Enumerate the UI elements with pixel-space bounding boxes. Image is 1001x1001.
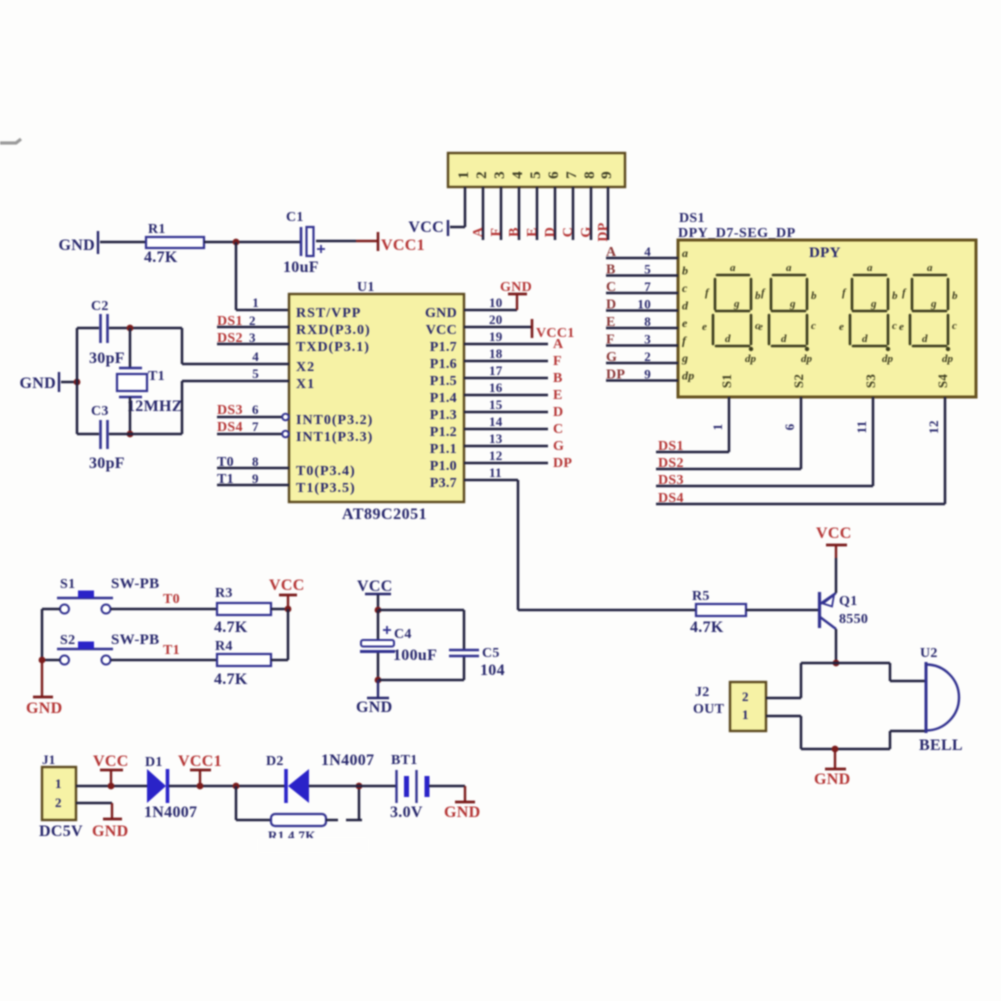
svg-text:P1.5: P1.5: [430, 374, 457, 389]
wire: [800, 716, 803, 749]
ground GND (bell): [834, 749, 836, 768]
svg-text:VCC: VCC: [357, 578, 393, 595]
svg-text:T1: T1: [163, 643, 180, 658]
svg-text:P1.1: P1.1: [430, 442, 457, 457]
svg-text:T0: T0: [163, 592, 180, 607]
svg-text:VCC: VCC: [426, 323, 457, 338]
svg-text:30pF: 30pF: [89, 350, 125, 367]
svg-text:S1: S1: [719, 374, 734, 388]
svg-text:T0: T0: [217, 455, 234, 470]
connector header (pins 1-9): [448, 153, 625, 187]
wire S1 to DS1: [728, 397, 731, 452]
svg-text:P3.7: P3.7: [430, 476, 457, 491]
svg-text:D: D: [606, 298, 616, 313]
node: [356, 783, 363, 790]
svg-text:DP: DP: [606, 368, 625, 383]
crystal T1 12MHZ: [119, 367, 142, 370]
svg-text:TXD(P3.1): TXD(P3.1): [296, 340, 370, 355]
svg-text:G: G: [606, 350, 617, 365]
svg-text:1: 1: [710, 424, 725, 431]
svg-text:7: 7: [644, 279, 651, 294]
svg-text:VCC: VCC: [269, 577, 305, 594]
wire: [42, 608, 60, 611]
svg-text:S1: S1: [60, 577, 75, 592]
svg-text:1N4007: 1N4007: [321, 752, 374, 769]
svg-text:GND: GND: [59, 237, 95, 254]
resistor R3 4.7K: [217, 603, 271, 615]
svg-text:U1: U1: [357, 280, 375, 295]
wire pin 18 / net F: [464, 360, 548, 363]
node: [832, 746, 839, 753]
svg-text:R3: R3: [215, 586, 233, 601]
svg-text:3: 3: [249, 330, 256, 345]
svg-text:8: 8: [582, 171, 598, 179]
node: [375, 677, 382, 684]
resistor R1 4.7K (charge limit): [271, 814, 326, 826]
svg-text:4: 4: [252, 349, 259, 364]
svg-text:A: A: [471, 226, 486, 237]
wire S3 to DS3: [872, 397, 875, 486]
svg-text:d: d: [682, 299, 689, 313]
svg-text:c: c: [952, 320, 957, 332]
svg-text:a: a: [786, 262, 792, 274]
svg-text:d: d: [862, 333, 868, 345]
svg-text:E: E: [553, 388, 563, 403]
svg-text:4.7K: 4.7K: [144, 249, 178, 266]
svg-text:G: G: [553, 439, 564, 454]
wire pin 2 / net DS1: [217, 326, 289, 329]
svg-text:GND: GND: [26, 700, 62, 717]
display DS1 body: [678, 240, 976, 397]
svg-text:VCC: VCC: [816, 525, 852, 542]
power VCC (Q1): [826, 544, 847, 547]
svg-text:12MHZ: 12MHZ: [127, 398, 183, 415]
svg-text:Q1: Q1: [839, 594, 858, 609]
svg-text:2: 2: [55, 795, 62, 810]
svg-text:a: a: [730, 262, 736, 274]
wire (dashed, branch return): [326, 819, 338, 822]
svg-text:P1.0: P1.0: [430, 459, 457, 474]
power VCC (input): [110, 771, 112, 786]
svg-text:E: E: [606, 315, 616, 330]
svg-text:DP: DP: [553, 456, 572, 471]
diode D2 1N4007: [284, 769, 288, 803]
capacitor C1 10uF: [300, 227, 303, 256]
node: [833, 660, 840, 667]
svg-text:e: e: [758, 321, 763, 333]
svg-text:4.7K: 4.7K: [214, 619, 248, 636]
svg-text:C: C: [553, 422, 563, 437]
svg-text:B: B: [507, 227, 522, 237]
svg-text:d: d: [922, 333, 928, 345]
svg-text:dp: dp: [942, 353, 954, 365]
svg-text:C: C: [606, 280, 616, 295]
svg-text:13: 13: [489, 431, 503, 446]
wire switches common: [41, 609, 44, 660]
svg-text:1: 1: [252, 295, 259, 310]
svg-text:c: c: [892, 320, 897, 332]
wire: [204, 241, 300, 244]
wire: [77, 433, 99, 436]
power VCC1 net label: [377, 232, 380, 251]
wire to U1 pin 1: [235, 242, 238, 310]
svg-text:U2: U2: [920, 646, 938, 661]
connector J2 OUT: [730, 682, 766, 731]
svg-text:S3: S3: [863, 374, 878, 389]
wire: [746, 609, 818, 612]
wire: [800, 663, 803, 698]
svg-text:P1.7: P1.7: [430, 340, 457, 355]
svg-text:DS3: DS3: [217, 403, 243, 418]
svg-text:100uF: 100uF: [393, 647, 437, 664]
wire segment pin F: [606, 344, 678, 347]
svg-text:3: 3: [644, 332, 651, 347]
ground GND (input): [103, 818, 122, 821]
svg-text:1: 1: [55, 776, 62, 791]
wire: [129, 397, 132, 434]
svg-text:1: 1: [742, 707, 749, 722]
svg-text:F: F: [489, 228, 504, 237]
wire: [271, 608, 288, 611]
wire: [129, 328, 132, 367]
svg-text:11: 11: [854, 421, 869, 434]
svg-text:P1.3: P1.3: [430, 408, 457, 423]
svg-text:g: g: [733, 298, 740, 310]
wire segment pin DP: [606, 379, 678, 382]
svg-text:C: C: [561, 227, 576, 237]
svg-text:S2: S2: [791, 374, 806, 388]
svg-text:30pF: 30pF: [89, 455, 125, 472]
wire collector: [835, 629, 838, 663]
svg-text:GND: GND: [92, 823, 128, 840]
svg-text:2: 2: [742, 689, 749, 704]
svg-text:4.7K: 4.7K: [214, 671, 248, 688]
wire: [77, 327, 99, 330]
svg-text:17: 17: [489, 363, 503, 378]
wire J1 pin 1: [76, 785, 147, 788]
wire pin 11 (P3.7): [464, 479, 518, 482]
wire pin 15 / net D: [464, 411, 548, 414]
svg-text:A: A: [606, 245, 617, 260]
svg-text:g: g: [870, 298, 877, 310]
svg-text:C5: C5: [482, 646, 500, 661]
svg-text:RXD(P3.0): RXD(P3.0): [296, 323, 371, 338]
resistor R4 4.7K: [217, 654, 271, 666]
svg-text:VCC: VCC: [93, 753, 129, 770]
ground GND (switches): [41, 660, 43, 697]
svg-text:9: 9: [252, 471, 259, 486]
wire: [169, 785, 286, 788]
svg-text:10uF: 10uF: [283, 259, 319, 276]
svg-text:A: A: [553, 337, 564, 352]
svg-text:P1.4: P1.4: [430, 391, 457, 406]
wire pin 8: [590, 187, 593, 240]
wire R4 to VCC node: [271, 659, 288, 662]
svg-text:S2: S2: [60, 633, 75, 648]
switch S1 SW-PB: [60, 605, 69, 614]
svg-text:4: 4: [510, 171, 526, 179]
wire pin 13 / net G: [464, 445, 548, 448]
svg-text:2: 2: [474, 171, 490, 179]
svg-text:SW-PB: SW-PB: [111, 632, 159, 648]
wire: [309, 785, 396, 788]
node: [127, 325, 134, 332]
svg-text:T1(P3.5): T1(P3.5): [296, 481, 356, 496]
svg-text:g: g: [930, 298, 937, 310]
wire S2 to DS2: [800, 397, 803, 469]
wire net T1: [111, 659, 218, 662]
svg-text:B: B: [606, 263, 616, 278]
wire segment pin A: [606, 257, 678, 260]
node: [197, 783, 204, 790]
diode D1 1N4007: [147, 769, 166, 803]
svg-text:e: e: [682, 316, 688, 330]
svg-text:D: D: [553, 405, 563, 420]
transistor Q1 8550 (PNP): [818, 592, 821, 628]
wire: [316, 240, 356, 243]
svg-text:g: g: [789, 298, 796, 310]
switch S2 SW-PB: [60, 656, 69, 665]
svg-text:5: 5: [528, 171, 544, 179]
wire: [42, 659, 60, 662]
svg-text:10: 10: [637, 297, 651, 312]
svg-text:8550: 8550: [839, 612, 868, 627]
svg-text:1: 1: [456, 171, 472, 179]
svg-text:SW-PB: SW-PB: [111, 576, 159, 592]
node: [375, 607, 382, 614]
svg-text:12: 12: [489, 448, 503, 463]
7-segment digit 2: [769, 275, 807, 346]
svg-text:dp: dp: [882, 353, 894, 365]
svg-text:DS2: DS2: [217, 331, 243, 346]
wire segment pin E: [606, 327, 678, 330]
svg-text:e: e: [702, 321, 707, 333]
svg-text:X2: X2: [296, 360, 315, 375]
svg-text:6: 6: [782, 423, 797, 430]
wire J2 pin 1: [766, 715, 801, 718]
connector J1 DC5V: [42, 767, 76, 820]
svg-text:T1: T1: [217, 472, 234, 487]
svg-text:D2: D2: [266, 754, 284, 769]
power VCC1 (after D1): [199, 771, 201, 786]
wire bell loop top: [801, 662, 890, 665]
wire pin 16 / net E: [464, 394, 548, 397]
wire pin 19 / net A: [464, 343, 548, 346]
IC U1 AT89C2051 body: [289, 294, 464, 502]
svg-text:104: 104: [480, 662, 505, 679]
wire pin 3: [500, 187, 503, 240]
svg-text:B: B: [553, 371, 563, 386]
wire: [378, 609, 464, 612]
svg-text:T1: T1: [148, 369, 165, 384]
svg-text:16: 16: [489, 380, 503, 395]
wire pin 9: [607, 187, 610, 240]
svg-text:d: d: [725, 333, 731, 345]
svg-text:E: E: [525, 227, 540, 237]
svg-text:e: e: [899, 321, 904, 333]
svg-text:19: 19: [489, 329, 503, 344]
wire J1 pin 2 to GND: [76, 802, 112, 805]
svg-text:7: 7: [252, 419, 259, 434]
wire pin 12 / net DP: [464, 462, 548, 465]
svg-text:DPY: DPY: [809, 245, 841, 261]
svg-text:3: 3: [492, 171, 508, 179]
wire segment pin G: [606, 362, 678, 365]
svg-text:DS3: DS3: [658, 473, 684, 488]
svg-text:10: 10: [489, 295, 503, 310]
svg-text:D: D: [543, 227, 558, 237]
wire: [109, 327, 182, 330]
svg-text:DC5V: DC5V: [39, 823, 83, 840]
wire: [429, 785, 465, 788]
svg-text:GND: GND: [425, 306, 457, 321]
wire pin 10 to GND: [464, 309, 517, 312]
buzzer U2 BELL: [889, 663, 892, 681]
wire emitter to VCC: [835, 558, 838, 593]
capacitor C3 30pF: [99, 420, 102, 449]
svg-text:12: 12: [926, 420, 941, 434]
7-segment digit 4: [910, 275, 948, 346]
svg-text:8: 8: [252, 454, 259, 469]
wire segment pin B: [606, 274, 678, 277]
svg-text:C2: C2: [91, 299, 109, 314]
power VCC (switch pullups): [287, 596, 289, 609]
svg-text:d: d: [781, 333, 787, 345]
svg-text:R1: R1: [148, 222, 166, 237]
wire pin 8 / net T0: [217, 467, 289, 470]
svg-text:F: F: [606, 333, 615, 348]
svg-text:a: a: [682, 246, 688, 260]
wire net T0: [111, 608, 218, 611]
svg-text:D1: D1: [145, 755, 163, 770]
svg-text:GND: GND: [500, 280, 532, 295]
7-segment digit 1: [713, 275, 751, 346]
svg-text:dp: dp: [801, 353, 813, 365]
node: [108, 783, 115, 790]
svg-text:GND: GND: [444, 804, 480, 821]
svg-text:C4: C4: [394, 627, 412, 642]
svg-text:11: 11: [489, 465, 502, 480]
wire pin 5: [536, 187, 539, 240]
svg-text:F: F: [553, 354, 562, 369]
power VCC1 net label (U1 pin 20): [531, 319, 534, 338]
svg-text:c: c: [682, 281, 688, 295]
wire P3.7 to R5: [518, 609, 696, 612]
svg-text:VCC: VCC: [408, 219, 444, 236]
svg-text:6: 6: [546, 171, 562, 179]
node (R1/C1/RST junction): [233, 239, 240, 246]
svg-text:18: 18: [489, 346, 503, 361]
svg-text:g: g: [681, 351, 688, 365]
svg-text:DS4: DS4: [217, 420, 243, 435]
wire pin 7: [572, 187, 575, 240]
node: [285, 606, 292, 613]
svg-text:a: a: [927, 262, 933, 274]
wire pin 9 / net T1: [217, 484, 289, 487]
wire S4 to DS4: [944, 397, 947, 504]
7-segment digit 3: [850, 275, 888, 346]
wire resistor branch: [235, 786, 238, 820]
ground GND (decoupling): [377, 680, 379, 697]
svg-text:5: 5: [644, 262, 651, 277]
capacitor C4 100uF: [377, 610, 380, 640]
svg-text:J2: J2: [695, 685, 710, 700]
svg-text:C1: C1: [286, 210, 304, 225]
svg-text:G: G: [579, 226, 594, 237]
svg-text:4: 4: [644, 244, 651, 259]
wire: [109, 433, 182, 436]
svg-text:a: a: [867, 262, 873, 274]
svg-text:b: b: [811, 290, 817, 302]
wire pin 1 to VCC: [464, 187, 467, 227]
svg-text:9: 9: [599, 171, 615, 179]
svg-text:OUT: OUT: [693, 702, 725, 717]
node: [233, 783, 240, 790]
wire pin 6: [554, 187, 557, 240]
svg-text:b: b: [892, 290, 898, 302]
svg-text:1N4007: 1N4007: [144, 804, 197, 821]
svg-text:RST/VPP: RST/VPP: [296, 306, 361, 321]
svg-text:2: 2: [644, 349, 651, 364]
svg-text:R4: R4: [215, 639, 233, 654]
svg-text:R5: R5: [692, 589, 710, 604]
svg-text:b: b: [682, 264, 688, 278]
ground GND (U1 pin 10): [516, 295, 518, 310]
svg-text:J1: J1: [42, 752, 56, 767]
wire: [100, 241, 146, 244]
wire segment pin D: [606, 309, 678, 312]
wire pin 4: [518, 187, 521, 240]
svg-text:AT89C2051: AT89C2051: [342, 506, 427, 523]
svg-text:dp: dp: [745, 353, 757, 365]
svg-text:6: 6: [252, 402, 259, 417]
svg-text:DS4: DS4: [658, 491, 684, 506]
svg-text:DS1: DS1: [658, 439, 684, 454]
node: [127, 431, 134, 438]
svg-text:7: 7: [564, 171, 580, 179]
svg-text:DP: DP: [596, 222, 611, 241]
capacitor C5 104: [449, 649, 479, 652]
wire J2 pin 2: [766, 697, 801, 700]
svg-text:8: 8: [644, 314, 651, 329]
wire pin 20 to VCC1: [464, 326, 531, 329]
node: [39, 657, 46, 664]
svg-text:P1.2: P1.2: [430, 425, 457, 440]
svg-text:VCC1: VCC1: [178, 753, 222, 770]
svg-text:DS1: DS1: [217, 314, 243, 329]
wire pin 17 / net B: [464, 377, 548, 380]
svg-text:S4: S4: [935, 374, 950, 389]
svg-text:INT0(P3.2): INT0(P3.2): [296, 413, 373, 428]
wire pin 14 / net C: [464, 428, 548, 431]
svg-text:dp: dp: [682, 369, 695, 383]
svg-text:DS2: DS2: [658, 456, 684, 471]
svg-text:b: b: [952, 290, 958, 302]
svg-text:4.7K: 4.7K: [690, 619, 724, 636]
resistor R5 4.7K: [696, 604, 746, 616]
wire: [378, 679, 464, 682]
resistor R1: [146, 237, 204, 248]
svg-text:f: f: [682, 334, 687, 348]
battery BT1 3.0V: [395, 770, 397, 803]
svg-text:GND: GND: [814, 771, 850, 788]
wire gnd bus: [76, 328, 79, 434]
wire pin 2: [482, 187, 485, 240]
svg-text:5: 5: [252, 366, 259, 381]
wire pin 3 / net DS2: [217, 343, 289, 346]
wire to U1 X1 (pin 5): [181, 381, 184, 434]
wire to U1 X2 (pin 4): [181, 328, 184, 364]
